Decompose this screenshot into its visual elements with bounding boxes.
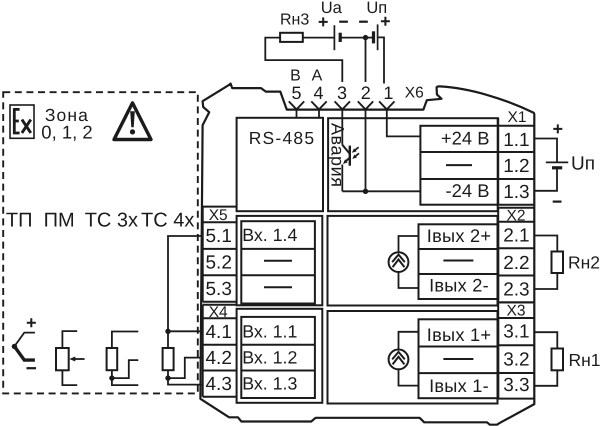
sensor type labels [6,210,194,232]
alarm block box [328,118,498,211]
svg-text:X1: X1 [508,109,527,126]
svg-text:2.1: 2.1 [503,225,529,246]
terminal fork 1 [379,101,394,109]
hazardous zone dashed boundary [3,92,198,393]
wire phototransistor emitter down [341,165,343,192]
dash row 1.2 [446,164,472,166]
svg-text:Rн3: Rн3 [280,12,309,29]
svg-text:X6: X6 [405,85,424,102]
X2 terminal cells [498,208,534,303]
label Зона 0,1,2 [41,105,92,142]
wire Rн3 loop to terminal 3 [265,38,342,82]
X1 terminal cells [498,118,534,205]
svg-text:Iвых 2+: Iвых 2+ [427,226,491,246]
battery Uп top [366,24,385,83]
svg-text:4.3: 4.3 [205,374,231,395]
battery Ua [303,25,366,50]
device outline [200,84,534,425]
svg-text:2.2: 2.2 [503,253,529,274]
X3 signal box [419,319,499,398]
svg-text:X5: X5 [209,207,228,224]
load resistor Rн2 [534,236,563,290]
svg-text:ТС 4х: ТС 4х [141,210,194,232]
wire to -24V row [342,190,420,192]
potentiometer ПМ [56,331,85,385]
terminal number labels [291,83,393,103]
current source 2 [389,236,419,288]
node junction terminal 2 top [363,35,368,40]
thermocouple ТП [12,318,36,368]
svg-text:5.3: 5.3 [205,279,231,300]
dash row 2.2 [443,260,473,262]
X4 terminal cells [203,305,237,397]
svg-text:1.3: 1.3 [503,182,529,203]
X2 outer box [328,216,498,306]
X4 signal box [241,317,315,398]
terminal fork 4 [311,101,326,109]
svg-text:4: 4 [313,83,323,103]
svg-text:2.3: 2.3 [503,280,529,301]
svg-text:RS-485: RS-485 [249,128,316,148]
svg-text:4.1: 4.1 [205,322,231,343]
phototransistor (alarm output) [342,145,359,166]
svg-text:X2: X2 [507,207,526,224]
svg-text:Iвых 2-: Iвых 2- [429,276,489,296]
svg-text:-24 В: -24 В [446,180,490,201]
svg-text:X4: X4 [209,304,228,321]
svg-text:0, 1, 2: 0, 1, 2 [41,121,92,142]
node junction terminal 2 bottom [363,189,368,194]
X3 outer box [328,311,498,404]
svg-text:Rн2: Rн2 [568,253,600,273]
svg-text:4.2: 4.2 [205,348,231,369]
X5 terminal cells [203,207,237,302]
svg-text:5.2: 5.2 [205,253,231,274]
svg-text:3: 3 [337,83,347,103]
svg-text:Вх. 1.4: Вх. 1.4 [242,225,297,245]
polarity marks Ua [319,17,348,26]
svg-text:Вх. 1.1: Вх. 1.1 [242,321,297,341]
svg-text:ТП: ТП [6,210,33,232]
dash rows 5.2 5.3 [264,261,292,288]
svg-text:ПМ: ПМ [44,210,75,232]
warning triangle [114,103,151,140]
svg-text:Uп: Uп [366,0,387,17]
svg-text:3.1: 3.1 [503,322,529,343]
svg-text:Iвых 1-: Iвых 1- [429,376,489,396]
X3 terminal cells [498,302,534,398]
X1 signal box [420,126,498,205]
RTD 4-wire ТС 4х [163,236,204,385]
svg-text:+24 В: +24 В [441,128,490,149]
svg-text:X3: X3 [507,303,526,320]
X5 outer box [237,216,323,305]
svg-text:1.1: 1.1 [503,130,529,151]
load resistor Rн1 [534,332,563,386]
terminal fork 3 [335,101,350,109]
terminal fork 2 [358,101,373,109]
wire terminal 4 to RS-485 [318,109,320,117]
svg-text:3.2: 3.2 [503,349,529,370]
external battery Uп [534,124,568,201]
svg-text:ТС 3х: ТС 3х [85,210,138,232]
dash row 3.2 [443,358,473,360]
svg-text:5: 5 [291,83,301,103]
svg-text:Авария: Авария [328,123,348,188]
RTD 3-wire ТС 3х [107,332,139,386]
RS-485 line labels B A [290,68,323,85]
wire terminal 2 [365,38,367,192]
X2 signal box [419,224,499,299]
svg-text:В: В [290,68,301,85]
resistor Rн3 [280,33,303,42]
Ex marking box [10,105,34,138]
svg-text:1.2: 1.2 [503,156,529,177]
terminal fork 5 [289,101,304,109]
svg-text:Вх. 1.2: Вх. 1.2 [242,348,297,368]
svg-text:Ua: Ua [321,0,343,17]
svg-text:Iвых 1+: Iвых 1+ [427,325,491,345]
wire terminal 5 to RS-485 [296,109,298,117]
wire terminal 3 to phototransistor [341,109,343,144]
polarity marks Uп [359,17,390,26]
wire terminal 1 to +24V row [387,109,421,136]
svg-text:2: 2 [361,83,371,103]
svg-text:3.3: 3.3 [503,375,529,396]
svg-text:А: А [312,68,323,85]
svg-text:1: 1 [383,83,393,103]
X4 outer box [237,309,323,403]
svg-text:Вх. 1.3: Вх. 1.3 [242,374,297,394]
RS-485 box [237,118,323,211]
svg-text:Uп: Uп [571,153,595,174]
X5 signal box [241,221,315,303]
svg-text:Rн1: Rн1 [569,350,600,370]
current source 1 [389,332,419,386]
svg-text:5.1: 5.1 [205,226,231,247]
